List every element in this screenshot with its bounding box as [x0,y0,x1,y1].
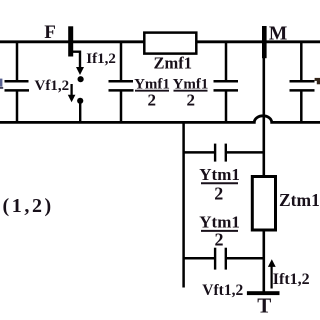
wire top rail [0,40,320,43]
svg-text:Zmf1: Zmf1 [154,53,193,72]
node fault bottom terminal dot [77,98,83,104]
wire Ytm tap stub from bottom rail [182,122,185,287]
node fault top terminal dot [78,76,84,82]
wire Ytm1/2 upper branch left [184,151,214,154]
svg-text:2: 2 [186,90,195,109]
wire bottom rail with crossover hop [0,116,320,123]
svg-text:T: T [257,294,271,318]
capacitor left shunt (cut off at edge) [5,42,30,123]
current arrow If1,2 [76,67,84,75]
svg-text:2: 2 [148,90,157,109]
wire Ytm1/2 upper branch right [227,151,264,154]
node T terminal bar [247,291,280,295]
capacitor Ymf1/2 left [109,42,134,123]
wire fault to bottom rail [79,103,81,122]
svg-text:(1,2): (1,2) [3,195,54,217]
current arrow Ift1,2 [268,259,276,288]
value label fragment (cut off at right edge) [315,78,320,84]
wire Ytm1/2 lower branch left [184,257,214,260]
impedance Zmf1 (box in top rail) [144,33,196,54]
label Ymf1/2 left [134,77,170,110]
capacitor Ytm1/2 upper [215,144,226,162]
voltage arrow Vf1,2 [68,84,76,102]
value label fragment "1" (cut off at left edge) [0,79,3,89]
svg-text:Vf1,2: Vf1,2 [35,78,70,94]
svg-text:Ztm1: Ztm1 [279,190,320,210]
node M bus bar [262,26,267,58]
svg-text:2: 2 [215,230,224,250]
wire Ytm1/2 lower branch right [227,257,264,260]
capacitor Ymf1/2 right [214,42,239,123]
wire Ztm1 to T [262,230,265,292]
svg-text:2: 2 [214,183,223,203]
label Ytm1/2 upper [199,165,240,204]
svg-text:If1,2: If1,2 [86,51,116,67]
impedance Ztm1 (box) [252,177,275,231]
svg-text:Ytm1: Ytm1 [199,165,240,184]
label Ymf1/2 right [173,77,209,110]
wire If branch jog from F bar [71,52,80,68]
capacitor right shunt (near edge) [290,42,315,123]
svg-text:F: F [44,22,56,43]
capacitor Ytm1/2 lower [215,248,226,270]
node F bus bar [68,26,73,56]
label Ytm1/2 lower [199,212,240,249]
svg-text:Ift1,2: Ift1,2 [273,271,310,288]
svg-text:Vft1,2: Vft1,2 [202,282,243,299]
svg-text:M: M [269,23,287,44]
wire M to Ztm1 (passes through hop) [262,58,265,177]
